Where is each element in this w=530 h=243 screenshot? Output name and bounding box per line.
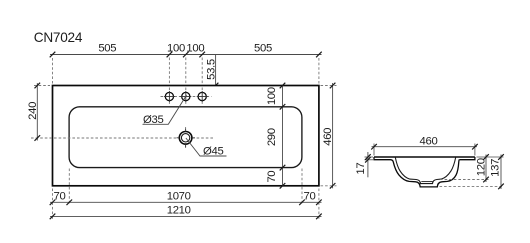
crosshair h hole2 bbox=[180, 96, 191, 98]
460 dimension vertical line bbox=[332, 83, 334, 188]
17 tick bottom bbox=[365, 157, 371, 163]
tick at inner top bbox=[280, 104, 286, 110]
side view rim left cap and wing bbox=[374, 157, 391, 160]
extension line above top-left corner (for 505 dim) bbox=[52, 58, 54, 84]
bottom extension line x=69.3 bbox=[68, 169, 70, 206]
bottom extension line x=302 bbox=[301, 169, 303, 206]
horizontal dashed centerline through faucet holes bbox=[161, 96, 212, 98]
dashed reference line at drain boss bottom (137) bbox=[440, 185, 504, 187]
53.5 lower reference stub at hole centerline bbox=[209, 96, 222, 98]
dashed centerline below rect edge through faucet hole 1 bbox=[168, 88, 170, 105]
side view rim top line bbox=[374, 156, 475, 158]
svg-text:505: 505 bbox=[98, 43, 116, 55]
svg-text:70: 70 bbox=[266, 171, 278, 183]
svg-text:70: 70 bbox=[54, 190, 66, 202]
tick x=52.5 bbox=[50, 214, 56, 220]
drain outer circle bbox=[179, 132, 192, 145]
svg-text:505: 505 bbox=[254, 43, 272, 55]
17 dim vertical line bbox=[367, 152, 369, 177]
137 tick top bbox=[498, 154, 504, 160]
tick x=318.9 bbox=[316, 214, 322, 220]
dashed centerline below rect edge through faucet hole 3 bbox=[201, 88, 203, 105]
tick at inner bottom bbox=[280, 165, 286, 171]
bowl inner surface line bbox=[395, 157, 455, 183]
17 tick top bbox=[365, 154, 371, 160]
inner rounded rect (basin bowl outline) bbox=[69, 107, 302, 168]
53.5 dimension vertical line bbox=[215, 55, 217, 100]
svg-text:17: 17 bbox=[355, 163, 367, 175]
drain inner circle bbox=[181, 134, 189, 142]
240 tick bottom bbox=[35, 135, 41, 141]
svg-text:CN7024: CN7024 bbox=[34, 30, 83, 45]
tick at x=318.9 bbox=[316, 52, 322, 58]
137 tick bottom bbox=[498, 184, 504, 190]
120 tick bottom bbox=[483, 177, 489, 183]
460 tick top bbox=[330, 83, 336, 89]
drain centerline quadrant dashes bbox=[177, 137, 180, 139]
svg-text:1210: 1210 bbox=[167, 205, 191, 217]
tick at x=202.2 bbox=[199, 52, 205, 58]
faucet hole 3 bbox=[198, 92, 206, 100]
svg-text:100: 100 bbox=[186, 43, 204, 55]
extension dashed centerline above faucet hole 1 bbox=[168, 58, 170, 85]
120 dim vertical line bbox=[485, 155, 487, 183]
17 extension top bbox=[365, 156, 374, 158]
side view rim right wing and cap bbox=[459, 157, 475, 160]
crosshair v hole3 bbox=[201, 91, 203, 102]
crosshair h hole3 bbox=[197, 96, 208, 98]
extension dashed centerline above faucet hole 3 bbox=[201, 58, 203, 85]
svg-text:53.5: 53.5 bbox=[206, 59, 218, 80]
svg-text:Ø35: Ø35 bbox=[143, 114, 163, 126]
leader line for drain diameter 45 bbox=[186, 138, 227, 156]
bottom extension line x=318.9 bbox=[318, 189, 320, 220]
240 dimension vertical line bbox=[36, 83, 38, 141]
outer rect of basin top view bbox=[53, 86, 319, 186]
tick at x=169.4 bbox=[167, 52, 173, 58]
tick at x=185.8 bbox=[183, 52, 189, 58]
tick x=69.3 bbox=[67, 200, 73, 206]
svg-text:Ø45: Ø45 bbox=[203, 146, 223, 158]
svg-text:100: 100 bbox=[167, 43, 185, 55]
extension dashed centerline above faucet hole 2 bbox=[185, 58, 187, 85]
svg-text:137: 137 bbox=[490, 159, 502, 177]
svg-text:240: 240 bbox=[27, 102, 39, 120]
horizontal dashed centerline through drain bbox=[31, 137, 214, 139]
extension line left of top-left corner (for 240 dim) bbox=[34, 85, 50, 87]
53.5 tick at hole centerline bbox=[213, 94, 219, 100]
crosshair v hole1 bbox=[168, 91, 170, 102]
crosshair h hole1 bbox=[164, 96, 175, 98]
tick x=318.9 bbox=[316, 200, 322, 206]
tick at x=52.5 bbox=[50, 52, 56, 58]
svg-text:290: 290 bbox=[266, 128, 278, 146]
460 tick right bbox=[472, 144, 478, 150]
120 tick top bbox=[483, 154, 489, 160]
svg-text:70: 70 bbox=[304, 190, 316, 202]
svg-text:120: 120 bbox=[475, 158, 487, 176]
460 dim line above side view bbox=[372, 146, 478, 148]
tick at rect bottom bbox=[280, 183, 286, 189]
240 tick top bbox=[35, 83, 41, 89]
dashed reference line at bowl inner depth (120) bbox=[440, 179, 489, 181]
53.5 tick at rect top edge bbox=[213, 83, 219, 89]
tick at rect top bbox=[280, 83, 286, 89]
vertical dashed centerline through drain bbox=[185, 127, 187, 149]
460 tick bottom bbox=[330, 183, 336, 189]
svg-text:460: 460 bbox=[322, 128, 334, 146]
460 extension left bbox=[373, 144, 375, 156]
bottom dimension line 2 (1210) bbox=[50, 215, 322, 217]
extension line above top-right corner bbox=[318, 58, 320, 84]
17 extension bottom bbox=[365, 159, 374, 161]
bowl outer surface line bbox=[391, 160, 460, 187]
leader line for hole diameter 35 bbox=[143, 95, 187, 124]
bottom extension line x=52.5 bbox=[52, 189, 54, 220]
dashed centerline below rect edge through faucet hole 2 bbox=[185, 88, 187, 105]
extension lines right of rect (for 460 dim) bbox=[321, 85, 337, 87]
tick x=52.5 bbox=[50, 200, 56, 206]
460 tick left bbox=[371, 144, 377, 150]
svg-text:460: 460 bbox=[420, 136, 438, 148]
svg-text:1070: 1070 bbox=[167, 190, 191, 202]
460 extension right bbox=[474, 144, 476, 156]
bottom dimension line 1 (70/1070/70) bbox=[50, 201, 322, 203]
137 dim vertical line bbox=[500, 155, 502, 190]
tick x=302 bbox=[299, 200, 305, 206]
drain recess top edge line bbox=[421, 181, 433, 183]
interior vertical dimension line (100/290/70) bbox=[282, 86, 284, 186]
top dimension line bbox=[50, 54, 322, 56]
faucet hole 1 bbox=[165, 92, 173, 100]
faucet hole 2 (middle) bbox=[182, 92, 190, 100]
svg-text:100: 100 bbox=[266, 87, 278, 105]
crosshair v hole2 bbox=[185, 91, 187, 102]
extension line at rim top to right dims bbox=[477, 156, 504, 158]
